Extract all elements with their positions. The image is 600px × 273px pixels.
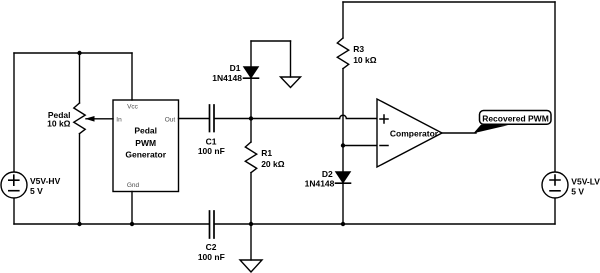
junction node pot bottom rail: [77, 222, 81, 226]
source V5V-LV plus: [550, 175, 560, 185]
wire C1 to comparator plus with hop: [215, 115, 378, 118]
wire D1 top horizontal: [251, 40, 291, 42]
wire pot bottom: [79, 134, 81, 224]
svg-text:In: In: [116, 116, 122, 123]
diode D2: [336, 172, 350, 183]
wire right rail lower: [554, 198, 556, 224]
wire minus node to comparator: [343, 145, 377, 147]
wire signal to R1: [250, 119, 252, 143]
wire bottom rail right of C2: [215, 223, 556, 225]
svg-text:1N4148: 1N4148: [212, 73, 242, 83]
svg-text:100 nF: 100 nF: [198, 252, 225, 262]
wire wiper to In: [86, 118, 113, 120]
junction node signal/D1/R1: [249, 116, 253, 120]
resistor R1 body: [245, 142, 256, 173]
wire minus node to D2: [342, 146, 344, 173]
wire Vcc drop: [131, 53, 133, 100]
source V5V-LV circle: [542, 172, 568, 198]
ground G1 (near D1): [281, 77, 301, 88]
svg-text:20 kΩ: 20 kΩ: [261, 159, 285, 169]
wire R3 to minus node: [342, 69, 344, 146]
svg-text:10 kΩ: 10 kΩ: [47, 119, 71, 129]
svg-text:C1: C1: [206, 136, 217, 146]
wire bottom rail left of C2: [14, 223, 209, 225]
svg-text:D2: D2: [322, 169, 333, 179]
junction node pot top: [77, 51, 81, 55]
source V5V-HV circle: [1, 172, 27, 198]
svg-text:V5V-LV: V5V-LV: [571, 177, 600, 187]
wire D1 cathode to signal: [250, 78, 252, 119]
svg-text:C2: C2: [206, 242, 217, 252]
svg-text:R3: R3: [353, 44, 364, 54]
resistor R3 body: [337, 38, 348, 69]
svg-text:Gnd: Gnd: [127, 182, 140, 189]
source V5V-HV plus: [9, 175, 19, 185]
wire comparator output: [442, 132, 476, 134]
wire left rail upper: [13, 53, 15, 172]
junction node D2 bottom rail: [341, 222, 345, 226]
wire pot top: [79, 53, 81, 103]
svg-text:Comperator: Comperator: [390, 129, 439, 139]
wire to ground G1: [290, 41, 292, 77]
svg-text:D1: D1: [230, 63, 241, 73]
wire D2 cathode to bottom rail: [342, 183, 344, 224]
wire top rail to R3: [342, 2, 344, 38]
capacitor C2 plates: [210, 211, 215, 238]
wire left rail lower: [13, 198, 15, 224]
wire D1 anode drop: [250, 41, 252, 67]
op-amp plus input marker: [380, 115, 388, 123]
wire top rail: [343, 1, 555, 3]
svg-text:1N4148: 1N4148: [305, 179, 335, 189]
junction node gnd pin rail: [130, 222, 134, 226]
wire box Gnd drop: [131, 192, 133, 225]
source V5V-LV minus: [550, 190, 560, 192]
svg-text:PWM: PWM: [135, 138, 156, 148]
svg-text:Out: Out: [165, 116, 176, 123]
junction node R1 bottom rail: [249, 222, 253, 226]
wire right rail upper: [554, 2, 556, 172]
svg-text:V5V-HV: V5V-HV: [30, 176, 61, 186]
diode D1: [244, 67, 258, 78]
op-amp U2 comparator triangle: [377, 99, 442, 167]
svg-text:10 kΩ: 10 kΩ: [353, 55, 377, 65]
svg-text:R1: R1: [261, 148, 272, 158]
svg-text:5 V: 5 V: [30, 186, 43, 196]
svg-text:Generator: Generator: [125, 150, 166, 160]
capacitor C1 plates: [210, 105, 215, 132]
label Recovered PWM box: [480, 111, 552, 125]
svg-text:Vcc: Vcc: [127, 104, 139, 111]
svg-text:Pedal: Pedal: [134, 125, 157, 135]
wiper arrowhead: [85, 116, 95, 122]
svg-text:5 V: 5 V: [571, 186, 584, 196]
label Recovered PWM flag tail: [474, 125, 509, 134]
op-amp minus input marker: [380, 145, 388, 147]
wire bottom rail to ground G2: [250, 224, 252, 260]
wire R1 to bottom rail: [250, 173, 252, 224]
junction node minus input: [341, 143, 345, 147]
pwm generator box U1: [113, 100, 179, 192]
potentiometer Pedal body: [74, 103, 85, 134]
wire Out to C1: [179, 118, 210, 120]
source V5V-HV minus: [9, 190, 19, 192]
svg-text:Recovered PWM: Recovered PWM: [482, 113, 549, 123]
svg-text:100 nF: 100 nF: [198, 146, 225, 156]
ground G2 (below R1): [240, 260, 262, 272]
wire top-left horizontal: [14, 52, 132, 54]
